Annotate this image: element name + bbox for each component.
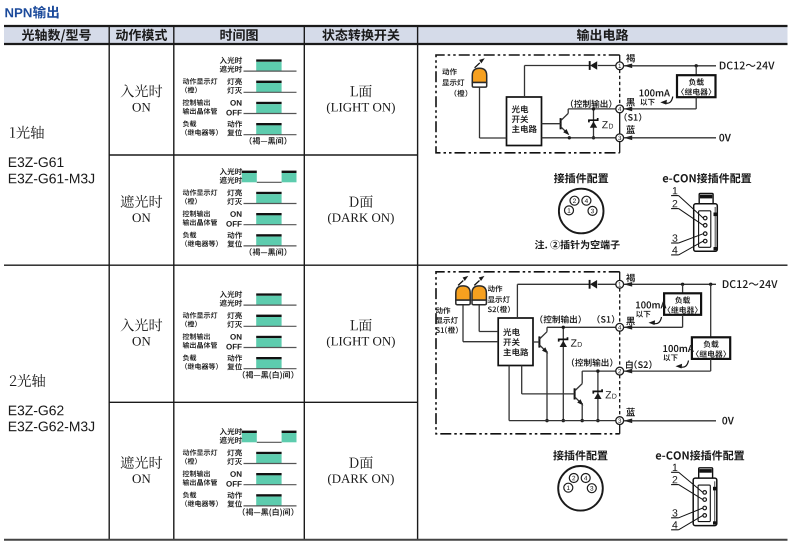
terminal pin 4	[616, 323, 624, 331]
label: control output	[571, 100, 612, 108]
zener diode Zd	[597, 371, 599, 421]
e-CON pin 1 circle	[703, 216, 707, 220]
e-CON connector title	[663, 173, 751, 183]
chart labels	[220, 291, 242, 298]
waveform light-incident (D)	[242, 171, 257, 173]
wire base Q2 vertical	[521, 366, 523, 394]
wire output S1	[624, 108, 697, 110]
e-CON pin 3 circle	[703, 506, 707, 510]
waveform output transistor	[256, 102, 281, 104]
connector layout title	[554, 173, 608, 183]
indicator lamp LED1 (orange)	[472, 68, 486, 82]
waveform output transistor	[256, 473, 281, 475]
e-CON pin 2 circle	[703, 224, 707, 228]
M8 connector face	[558, 466, 603, 511]
chart labels	[220, 57, 242, 64]
label 0V	[722, 417, 734, 425]
waveform indicator	[256, 192, 281, 194]
terminal pin 1	[616, 280, 624, 288]
transistor collector	[539, 332, 547, 339]
table header bottom border	[4, 43, 788, 45]
waveform indicator	[256, 452, 281, 454]
header labels	[22, 29, 91, 43]
wire to load	[695, 66, 697, 75]
transistor emitter	[561, 127, 567, 133]
wire control output S2	[582, 370, 616, 372]
terminal pin 4	[616, 105, 624, 113]
label control output S2	[572, 358, 613, 366]
wire 0V rail to terminal 3	[509, 420, 616, 422]
current arrow S1	[654, 317, 662, 324]
dashed border 1-4	[619, 288, 621, 323]
chart labels	[220, 168, 242, 175]
photoelectric switch main circuit box U2	[498, 318, 533, 366]
row 1 model labels	[10, 126, 44, 139]
e-CON pin number 4	[672, 246, 677, 253]
zener diode Zd	[593, 109, 595, 138]
e-CON connector body	[693, 478, 717, 525]
wire collector stub	[567, 109, 569, 114]
wire Vcc from main circuit	[516, 284, 518, 318]
mode cell 入光时	[121, 318, 163, 331]
wire lamp S1	[462, 305, 464, 341]
mode cell 遮光时	[121, 195, 163, 208]
transistor base bar	[538, 336, 540, 347]
mode cell 遮光时	[121, 456, 163, 469]
e-CON pin 3 circle	[703, 232, 707, 236]
0V wire	[624, 420, 716, 422]
label S1 lamp line1	[436, 307, 450, 314]
wire main circuit to 0V rail	[508, 366, 510, 421]
wire S1 to load1	[624, 326, 683, 328]
wire collector stub Q1	[546, 327, 548, 331]
e-CON connector body	[694, 204, 718, 252]
node: zener top junction	[592, 107, 595, 110]
label DC12-24V	[720, 62, 775, 70]
zener diode Zd	[562, 327, 564, 420]
e-CON pin number 2	[673, 476, 678, 483]
wire diode to terminal 1	[598, 65, 616, 67]
e-CON pin 1 circle	[703, 491, 707, 495]
mode cell 入光时	[121, 84, 163, 97]
waveform load	[256, 357, 281, 359]
waveform indicator	[256, 315, 281, 317]
node: zener1 bottom	[562, 419, 565, 422]
e-CON pin number 3	[672, 234, 677, 241]
e-CON pin 2 circle	[703, 498, 707, 502]
table bottom border	[4, 539, 788, 541]
label S1	[597, 315, 614, 324]
wire base Q2	[522, 393, 575, 395]
border stub above terminal 1	[619, 272, 621, 281]
label black	[626, 317, 635, 326]
e-CON pin number 3	[672, 509, 677, 516]
row divider axis1/axis2	[4, 264, 788, 266]
transistor collector	[561, 113, 569, 120]
connector layout title	[553, 450, 607, 460]
chart caption	[250, 248, 287, 256]
wire lamp to node	[479, 87, 481, 138]
wire to diode anode	[525, 65, 590, 67]
connector pin 1	[565, 206, 574, 215]
table column line 2	[173, 26, 175, 540]
label 100mA (S1)	[636, 301, 667, 308]
waveform load	[256, 123, 281, 125]
wire load to output	[695, 97, 697, 109]
e-CON pin 4 circle	[703, 514, 707, 518]
label 0V	[719, 134, 731, 142]
waveform light-incident (L)	[256, 293, 281, 295]
terminal pin 1	[616, 62, 624, 70]
table header top border	[4, 25, 788, 27]
indicator lamp LED S2 (orange)	[472, 286, 486, 300]
label DC12-24V	[723, 280, 778, 288]
e-CON connector cap	[699, 194, 713, 205]
border stub below terminal 3	[619, 142, 621, 153]
label black	[626, 98, 635, 107]
switch cell D面	[349, 195, 373, 208]
diode D1 (reverse polarity protection)	[589, 61, 591, 70]
chart caption	[250, 137, 287, 145]
current arrow S2	[681, 361, 689, 368]
node: emitter junction	[568, 136, 571, 139]
e-CON side shading	[714, 481, 716, 523]
wire collector stub Q2	[581, 371, 583, 384]
table column line 4	[417, 26, 419, 540]
connector pin 4	[582, 196, 591, 205]
e-CON pin 4 circle	[703, 239, 707, 243]
wire S2 to load2	[624, 370, 711, 372]
row divider 1a/1b	[109, 154, 417, 156]
waveform light-incident (L)	[256, 59, 281, 61]
transistor base bar	[574, 388, 576, 399]
wire control output S1	[568, 108, 616, 110]
photoelectric switch main circuit box U1	[507, 97, 542, 146]
waveform indicator	[256, 81, 281, 83]
dashed border terminal1-4	[619, 70, 621, 105]
wire lamp to main circuit	[480, 137, 507, 139]
load (relay) box LOAD2b	[692, 337, 730, 359]
dashed border 4-2	[619, 331, 621, 367]
e-CON pin number 1	[673, 464, 678, 471]
connector pin 3	[587, 484, 596, 493]
e-CON connector cap	[699, 468, 713, 479]
wire lamp S2	[478, 305, 480, 331]
wire diode to terminal 1	[598, 283, 616, 285]
waveform light-incident (D)	[242, 431, 257, 433]
wire emitter Q1 to 0V rail	[546, 351, 548, 421]
chart caption	[243, 371, 294, 380]
transistor base bar	[560, 118, 562, 129]
table column line 3	[303, 26, 305, 540]
wire base Q1	[533, 341, 540, 343]
title NPN output	[5, 8, 31, 17]
sensor enclosure (dash-dot box)	[436, 55, 620, 153]
0V wire	[624, 137, 716, 139]
label S2 lamp line1	[488, 285, 502, 292]
current direction arrow	[665, 97, 673, 104]
note: pin2 is vacant	[535, 240, 620, 250]
waveform load	[256, 234, 281, 236]
label brown	[626, 54, 635, 63]
waveform output transistor	[256, 336, 281, 338]
wire emitter Q2 to 0V rail	[581, 403, 583, 421]
lamp flash arrow	[475, 63, 480, 68]
e-CON side shading	[714, 207, 716, 249]
label brown	[626, 274, 635, 283]
lamp flash arrow	[474, 281, 479, 286]
wire emitter return to terminal 3	[542, 137, 616, 139]
wire Vcc from main circuit	[524, 66, 526, 98]
e-CON pin number 4	[672, 521, 677, 528]
transistor emitter	[539, 345, 545, 351]
connector pin 4	[581, 474, 590, 483]
e-CON inner face	[698, 485, 710, 521]
e-CON pin number 2	[673, 200, 678, 207]
connector pin 2	[570, 196, 579, 205]
M8 connector face	[559, 189, 604, 234]
terminal pin 2	[616, 367, 624, 375]
wire control output S1	[547, 326, 616, 328]
switch cell D面	[349, 456, 373, 469]
node: load2 tap	[709, 283, 712, 286]
chart caption	[243, 508, 294, 516]
DC supply wire	[624, 65, 716, 67]
connector pin 2	[569, 474, 578, 483]
waveform output transistor	[256, 213, 281, 215]
connector pin 1	[564, 483, 573, 492]
label: operation indicator line1	[442, 68, 456, 75]
transistor collector	[575, 384, 583, 391]
label blue	[626, 125, 635, 134]
node: emitter1 junction	[545, 419, 548, 422]
label 100mA	[640, 89, 671, 96]
wire base Q1	[542, 123, 561, 125]
table header fill	[4, 26, 788, 44]
load (relay) box LOAD1	[677, 75, 716, 97]
terminal pin 3	[616, 134, 624, 142]
e-CON pin number 1	[673, 187, 678, 194]
label control output S1	[540, 315, 581, 323]
border stub above terminal 1	[619, 55, 621, 62]
node: zener bottom junction	[592, 136, 595, 139]
load (relay) box LOAD2a	[664, 293, 701, 315]
indicator lamp LED S1 (orange)	[456, 286, 470, 300]
row divider 2a/2b	[109, 401, 417, 403]
chart labels	[220, 428, 242, 435]
label blue	[626, 408, 635, 417]
terminal pin 3	[616, 417, 624, 425]
e-CON connector title	[656, 450, 744, 460]
waveform load	[256, 494, 281, 496]
transistor emitter	[575, 397, 581, 403]
node: zener1 top	[562, 326, 565, 329]
diode D1 (reverse polarity protection)	[589, 280, 591, 289]
e-CON inner face	[699, 211, 711, 248]
label S1	[625, 113, 642, 122]
node: zener2 bottom	[596, 419, 599, 422]
switch cell L面	[350, 85, 372, 98]
node: emitter2 junction	[581, 419, 584, 422]
label 100mA (S2)	[663, 345, 694, 352]
connector pin 3	[588, 206, 597, 215]
switch cell L面	[350, 319, 372, 332]
sensor enclosure (dash-dot box)	[436, 272, 620, 434]
wire terminal 4 to 3	[619, 113, 621, 134]
row 2 model labels	[10, 374, 45, 387]
table column line 1	[108, 26, 110, 540]
node: load1 tap	[681, 283, 684, 286]
border stub below terminal 3	[619, 425, 621, 434]
DC supply wire	[624, 283, 716, 285]
node: zener2 top	[596, 369, 599, 372]
label white S2	[626, 360, 652, 369]
lamp flash arrow	[458, 281, 463, 286]
node: load tap	[695, 64, 698, 67]
dashed border 2-3	[619, 375, 621, 417]
